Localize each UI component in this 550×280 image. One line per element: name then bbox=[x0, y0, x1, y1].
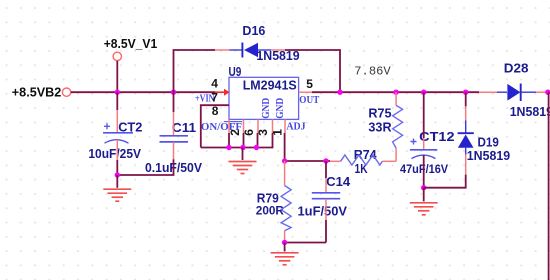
pin 6 GND bbox=[242, 119, 256, 147]
svg-text:33R: 33R bbox=[368, 120, 392, 135]
svg-text:+8.5V_V1: +8.5V_V1 bbox=[104, 36, 158, 51]
svg-text:1N5819: 1N5819 bbox=[510, 105, 550, 119]
capacitor C11 0.1uF/50V bbox=[117, 92, 202, 175]
junction ADJ/C14 bbox=[323, 158, 328, 163]
svg-text:5: 5 bbox=[306, 77, 313, 91]
svg-text:1K: 1K bbox=[355, 161, 369, 176]
wire OUT rail bbox=[312, 91, 479, 93]
svg-text:GND: GND bbox=[275, 98, 286, 119]
power port +8.5VB2 bbox=[12, 84, 71, 99]
power port +8.5V_V1 bbox=[104, 36, 158, 61]
wire ground stem CT12 bbox=[423, 188, 425, 202]
svg-text:10uF/25V: 10uF/25V bbox=[88, 147, 141, 161]
svg-text:2: 2 bbox=[228, 129, 242, 136]
wire from D16 anode down to OUT rail bbox=[285, 50, 340, 92]
resistor R74 1K bbox=[330, 147, 396, 176]
pin 1 GND bbox=[256, 98, 286, 148]
svg-text:D28: D28 bbox=[504, 61, 529, 76]
junction input rail / C11 / D16 branch bbox=[171, 90, 176, 95]
svg-text:C11: C11 bbox=[172, 120, 196, 135]
wire ADJ pin down to ADJ rail bbox=[284, 133, 286, 161]
junction OUT/R75 bbox=[393, 90, 398, 95]
capacitor C14 1uF/50V bbox=[298, 161, 351, 243]
junction R79 bottom bbox=[282, 240, 287, 245]
capacitor CT2 10uF/25V (polarized) bbox=[88, 92, 142, 175]
junction CT12/D19 ground rail bbox=[421, 185, 426, 190]
ground under U9 bbox=[229, 162, 257, 174]
wire ground stem CT2 bbox=[116, 175, 118, 188]
junction OUT/D16 bbox=[337, 90, 342, 95]
resistor R79 200R bbox=[256, 161, 291, 243]
wire bottom rail R79/C14 bbox=[285, 242, 326, 244]
resistor R75 33R bbox=[368, 92, 402, 161]
svg-text:8: 8 bbox=[212, 104, 219, 118]
svg-text:OUT: OUT bbox=[299, 95, 319, 106]
junction ADJ/R79 bbox=[282, 158, 287, 163]
wire down right edge bbox=[548, 92, 550, 280]
svg-text:D19: D19 bbox=[478, 134, 499, 149]
pin 8 ON/OFF bbox=[201, 104, 243, 147]
svg-text:GND: GND bbox=[261, 98, 272, 119]
capacitor CT12 47uF/16V (polarized) bbox=[400, 92, 455, 188]
junction pin6/bus bbox=[240, 145, 245, 150]
junction pin3/bus bbox=[254, 145, 259, 150]
ground under R79 bbox=[271, 253, 299, 265]
junction pin2/bus bbox=[226, 145, 231, 150]
wire vertical branch up to D16 bbox=[174, 50, 216, 92]
wire from +8.5V_V1 down to input rail bbox=[116, 61, 118, 92]
svg-text:200R: 200R bbox=[256, 203, 284, 217]
junction OUT/CT12 bbox=[421, 90, 426, 95]
svg-text:LM2941S: LM2941S bbox=[243, 79, 297, 93]
pin 4/7 +VIN with input arrow bbox=[195, 77, 230, 105]
junction D28 output corner bbox=[545, 90, 550, 95]
svg-text:C14: C14 bbox=[326, 174, 351, 189]
junction OUT/D19/D28 bbox=[463, 90, 468, 95]
svg-text:7.86V: 7.86V bbox=[354, 65, 391, 79]
svg-text:1N5819: 1N5819 bbox=[256, 49, 299, 63]
svg-text:R74: R74 bbox=[354, 147, 378, 162]
svg-text:ADJ: ADJ bbox=[286, 121, 305, 132]
junction input rail / V1 stem bbox=[115, 90, 120, 95]
pin 5 OUT bbox=[299, 77, 320, 106]
svg-text:1uF/50V: 1uF/50V bbox=[298, 204, 348, 218]
diode D16 1N5819 bbox=[215, 23, 300, 63]
junction CT2/C11/ground bbox=[115, 172, 120, 177]
svg-text:4: 4 bbox=[211, 77, 218, 91]
pin ADJ bbox=[285, 119, 306, 133]
ground under CT12 bbox=[410, 203, 438, 215]
wire input rail +8.5VB2 to U9 pin 4 bbox=[71, 91, 215, 93]
pin 3 GND bbox=[256, 98, 272, 148]
diode D19 1N5819 (vertical) bbox=[424, 92, 510, 188]
svg-text:D16: D16 bbox=[242, 23, 265, 38]
wire ground stem R79 bbox=[284, 243, 286, 252]
wire ground stem U9 bbox=[242, 148, 244, 161]
svg-text:7: 7 bbox=[211, 91, 218, 105]
pin 2 GND bbox=[228, 119, 242, 147]
wire ADJ rail bbox=[285, 160, 330, 162]
diode D28 1N5819 (horizontal) bbox=[479, 61, 550, 120]
svg-text:1N5819: 1N5819 bbox=[467, 149, 510, 163]
wire GND bus under U9 bbox=[201, 147, 258, 149]
op-amp regulator U9 LM2941S body bbox=[229, 64, 299, 119]
svg-text:+8.5VB2: +8.5VB2 bbox=[12, 84, 62, 99]
ground under CT2 bbox=[103, 189, 131, 201]
svg-text:R75: R75 bbox=[368, 106, 391, 121]
